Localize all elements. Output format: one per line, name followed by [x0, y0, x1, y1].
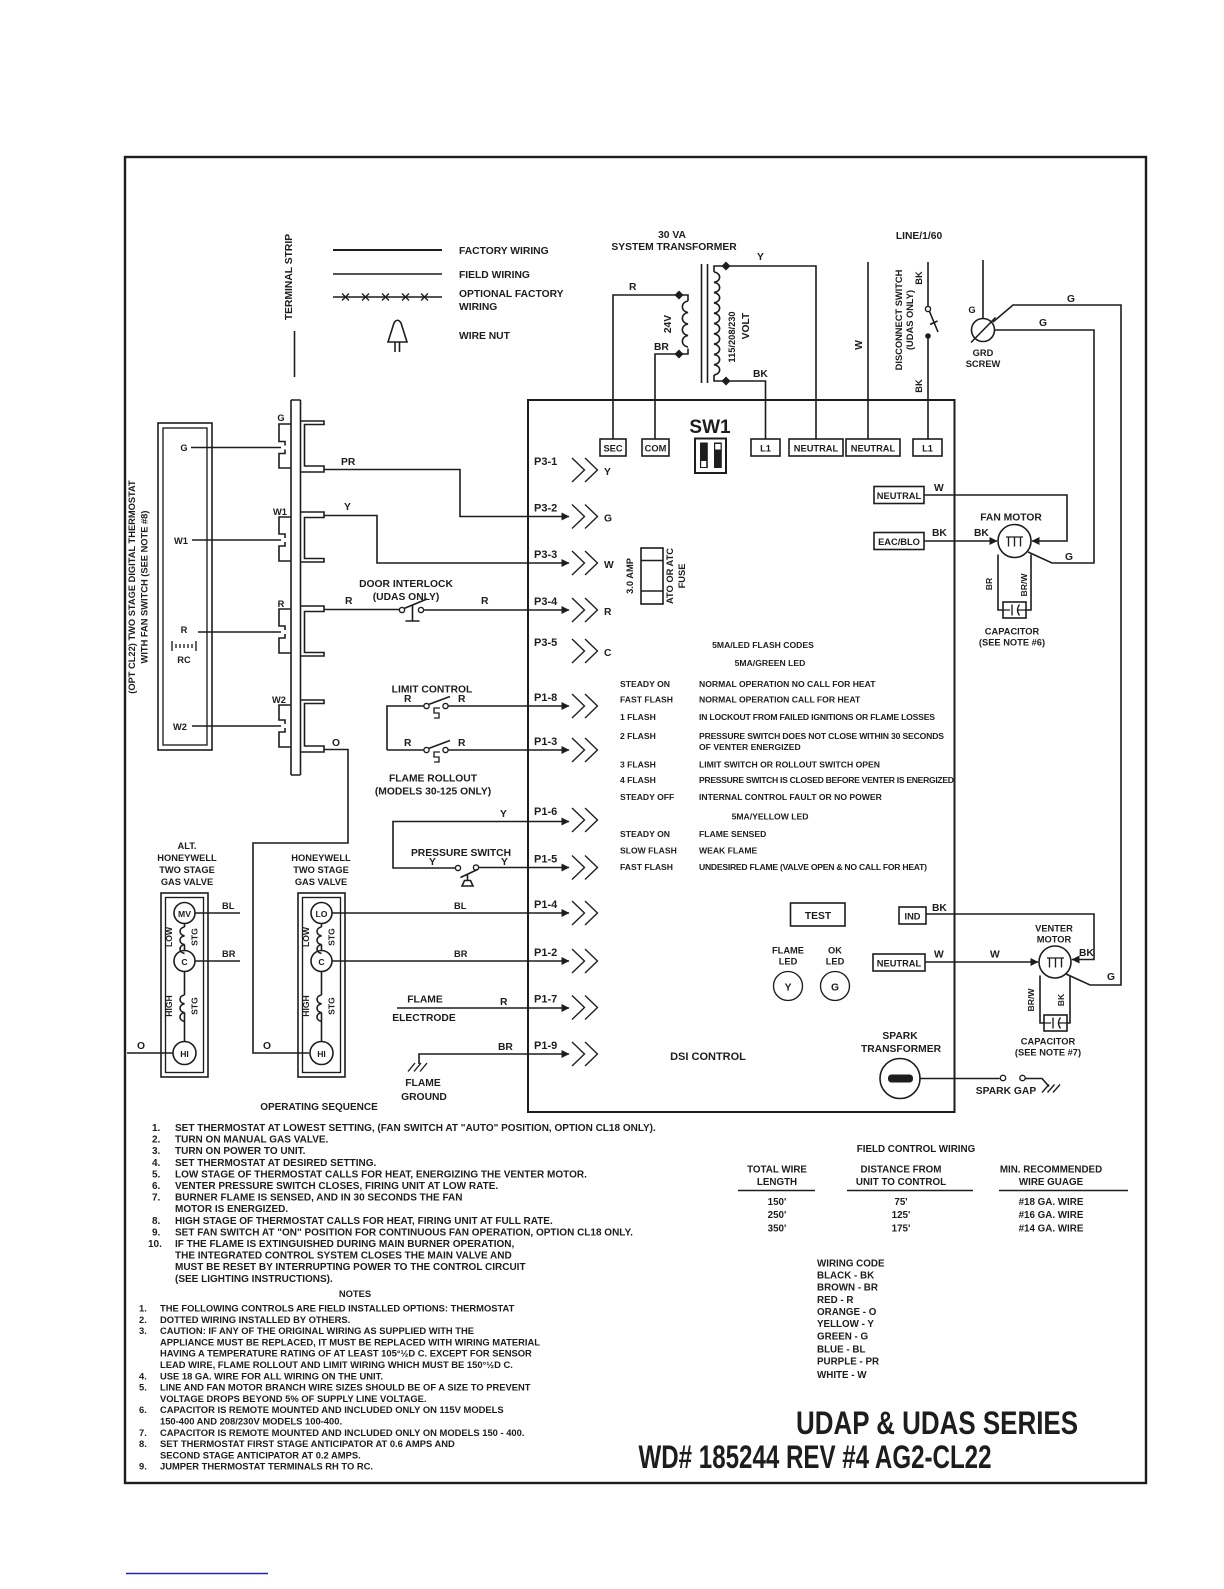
- DSI control module box: [528, 400, 955, 1112]
- svg-text:FLAME: FLAME: [772, 946, 804, 956]
- wire BL stub from MV: [195, 901, 240, 913]
- strip terminal W1 left: [273, 507, 291, 561]
- svg-text:UNIT TO CONTROL: UNIT TO CONTROL: [856, 1177, 946, 1188]
- svg-text:(UDAS ONLY): (UDAS ONLY): [905, 290, 915, 350]
- terminal NEUTRAL (from Y): [789, 439, 843, 456]
- svg-text:MUST BE RESET BY INTERRUPTING: MUST BE RESET BY INTERRUPTING POWER TO T…: [175, 1262, 526, 1273]
- svg-text:P3-1: P3-1: [534, 456, 557, 468]
- strip terminal W2 right: [301, 700, 325, 752]
- connector P1-5: [534, 854, 598, 880]
- svg-text:UDAP & UDAS SERIES: UDAP & UDAS SERIES: [796, 1405, 1078, 1441]
- svg-text:WIRING CODE: WIRING CODE: [817, 1259, 885, 1270]
- terminal NEUTRAL (from W): [846, 439, 900, 456]
- svg-text:NORMAL OPERATION NO CALL FOR H: NORMAL OPERATION NO CALL FOR HEAT: [699, 679, 876, 689]
- svg-text:BK: BK: [914, 379, 924, 393]
- disconnect switch S1 (UDAS only): [894, 262, 938, 439]
- connector P1-7: [534, 994, 598, 1020]
- svg-text:DISCONNECT SWITCH: DISCONNECT SWITCH: [894, 269, 904, 370]
- svg-text:LINE AND FAN MOTOR BRANCH WIRE: LINE AND FAN MOTOR BRANCH WIRE SIZES SHO…: [160, 1382, 531, 1393]
- alt honeywell gas valve V1: [157, 841, 217, 1077]
- svg-text:RC: RC: [177, 655, 191, 665]
- pressure switch: [393, 809, 569, 886]
- svg-text:PRESSURE SWITCH DOES NOT CLOSE: PRESSURE SWITCH DOES NOT CLOSE WITHIN 30…: [699, 731, 944, 741]
- svg-text:3.: 3.: [152, 1146, 161, 1157]
- svg-text:TOTAL WIRE: TOTAL WIRE: [747, 1165, 807, 1176]
- svg-text:5MA/YELLOW LED: 5MA/YELLOW LED: [732, 812, 809, 822]
- svg-text:FLAME: FLAME: [407, 995, 443, 1006]
- svg-text:HIGH STAGE OF THERMOSTAT CALLS: HIGH STAGE OF THERMOSTAT CALLS FOR HEAT,…: [175, 1216, 553, 1227]
- wire W neutral to venter motor: [925, 950, 1038, 963]
- svg-text:TERMINAL STRIP: TERMINAL STRIP: [284, 234, 295, 320]
- svg-text:NOTES: NOTES: [339, 1288, 371, 1299]
- DIP switch SW1: [689, 417, 731, 473]
- svg-text:FUSE: FUSE: [677, 564, 687, 589]
- svg-text:GRD: GRD: [973, 348, 994, 358]
- svg-text:115/208/230: 115/208/230: [727, 311, 737, 362]
- svg-text:BR: BR: [222, 949, 236, 959]
- svg-text:LED: LED: [826, 957, 845, 967]
- svg-text:R: R: [629, 282, 637, 293]
- svg-text:LOW: LOW: [301, 926, 311, 947]
- svg-text:MOTOR IS ENERGIZED.: MOTOR IS ENERGIZED.: [175, 1204, 288, 1215]
- field control wiring table: [738, 1144, 1128, 1235]
- svg-text:FACTORY WIRING: FACTORY WIRING: [459, 246, 549, 257]
- svg-text:STG: STG: [190, 997, 200, 1015]
- svg-text:IF THE FLAME IS EXTINGUISHED D: IF THE FLAME IS EXTINGUISHED DURING MAIN…: [175, 1239, 514, 1250]
- wire Y secondary to NEUTRAL: [726, 252, 816, 439]
- svg-text:PRESSURE SWITCH: PRESSURE SWITCH: [411, 848, 511, 859]
- svg-text:24V: 24V: [663, 315, 674, 333]
- svg-text:SYSTEM TRANSFORMER: SYSTEM TRANSFORMER: [611, 242, 737, 253]
- hyperlink underline: [126, 1573, 268, 1575]
- legend factory wiring: [333, 246, 549, 257]
- svg-text:FAN MOTOR: FAN MOTOR: [980, 513, 1042, 524]
- svg-text:P1-8: P1-8: [534, 692, 557, 704]
- LED ok (G): [821, 946, 850, 1001]
- svg-text:BROWN - BR: BROWN - BR: [817, 1283, 878, 1294]
- svg-text:FAST FLASH: FAST FLASH: [620, 862, 673, 872]
- svg-text:(SEE LIGHTING INSTRUCTIONS).: (SEE LIGHTING INSTRUCTIONS).: [175, 1274, 333, 1285]
- svg-text:G: G: [831, 983, 839, 994]
- svg-text:NEUTRAL: NEUTRAL: [794, 444, 839, 454]
- strip terminal G left: [277, 413, 291, 468]
- svg-text:ORANGE - O: ORANGE - O: [817, 1307, 877, 1318]
- svg-text:ATO OR ATC: ATO OR ATC: [665, 548, 675, 604]
- svg-text:P1-5: P1-5: [534, 854, 557, 866]
- svg-text:SEC: SEC: [603, 444, 622, 454]
- svg-text:W: W: [934, 483, 944, 494]
- svg-text:O: O: [332, 738, 340, 749]
- connector P1-8: [534, 692, 598, 718]
- svg-text:1.: 1.: [139, 1303, 147, 1314]
- svg-text:4.: 4.: [139, 1370, 147, 1381]
- svg-text:PRESSURE SWITCH IS CLOSED BEFO: PRESSURE SWITCH IS CLOSED BEFORE VENTER …: [699, 775, 954, 785]
- connector P1-3: [534, 736, 598, 762]
- svg-text:SET FAN SWITCH AT "ON" POSITIO: SET FAN SWITCH AT "ON" POSITION FOR CONT…: [175, 1227, 633, 1238]
- svg-text:TURN ON POWER TO UNIT.: TURN ON POWER TO UNIT.: [175, 1146, 306, 1157]
- svg-text:UNDESIRED FLAME (VALVE OPEN &: UNDESIRED FLAME (VALVE OPEN & NO CALL FO…: [699, 862, 927, 872]
- terminal NEUTRAL (venter): [873, 954, 925, 971]
- strip terminal W1 right: [301, 512, 325, 562]
- svg-text:BR: BR: [454, 949, 468, 959]
- connector P3-3: [534, 549, 614, 575]
- svg-text:BLUE - BL: BLUE - BL: [817, 1344, 865, 1355]
- svg-text:BK: BK: [1056, 993, 1066, 1006]
- svg-text:G: G: [1107, 972, 1115, 983]
- wire BR stub from C: [195, 949, 240, 961]
- svg-text:R: R: [404, 694, 412, 705]
- strip terminal R right: [301, 606, 325, 656]
- svg-text:TEST: TEST: [805, 911, 832, 922]
- svg-text:MIN. RECOMMENDED: MIN. RECOMMENDED: [1000, 1165, 1102, 1176]
- svg-text:TURN ON MANUAL GAS VALVE.: TURN ON MANUAL GAS VALVE.: [175, 1135, 329, 1146]
- connector P1-6: [534, 806, 598, 832]
- svg-text:BLACK - BK: BLACK - BK: [817, 1271, 874, 1282]
- terminal EAC/BLO: [874, 533, 924, 550]
- svg-text:BK: BK: [1079, 948, 1094, 959]
- svg-text:SECOND STAGE ANTICIPATOR AT 0.: SECOND STAGE ANTICIPATOR AT 0.2 AMPS.: [160, 1449, 361, 1460]
- svg-text:#14 GA. WIRE: #14 GA. WIRE: [1019, 1224, 1084, 1235]
- notes text: [139, 1288, 540, 1472]
- terminal NEUTRAL (fan): [874, 487, 924, 504]
- svg-text:5.: 5.: [152, 1169, 161, 1180]
- svg-text:R: R: [500, 997, 508, 1008]
- svg-text:P1-7: P1-7: [534, 994, 557, 1006]
- svg-text:75': 75': [894, 1197, 907, 1208]
- svg-text:R: R: [404, 738, 412, 749]
- svg-text:(MODELS 30-125 ONLY): (MODELS 30-125 ONLY): [375, 787, 491, 798]
- svg-text:SW1: SW1: [689, 417, 731, 438]
- venter motor M2: [1026, 924, 1073, 1024]
- wire G ground screw to venter motor: [993, 294, 1121, 985]
- legend optional factory wiring: [333, 289, 564, 313]
- svg-text:125': 125': [892, 1210, 911, 1221]
- svg-text:Y: Y: [429, 857, 436, 868]
- svg-text:USE 18 GA. WIRE FOR ALL WIRING: USE 18 GA. WIRE FOR ALL WIRING ON THE UN…: [160, 1370, 383, 1381]
- svg-text:Y: Y: [501, 857, 508, 868]
- wire O strip to gas valve HI: [253, 738, 348, 1053]
- svg-text:DOOR INTERLOCK: DOOR INTERLOCK: [359, 579, 453, 590]
- svg-text:G: G: [1039, 318, 1047, 329]
- svg-text:CAUTION: IF ANY OF THE ORIGIN: CAUTION: IF ANY OF THE ORIGINAL WIRING A…: [160, 1325, 474, 1336]
- svg-text:8.: 8.: [139, 1438, 147, 1449]
- svg-text:R: R: [458, 694, 466, 705]
- svg-text:INTERNAL CONTROL FAULT OR NO P: INTERNAL CONTROL FAULT OR NO POWER: [699, 792, 883, 802]
- svg-text:LIMIT SWITCH OR ROLLOUT SWITCH: LIMIT SWITCH OR ROLLOUT SWITCH OPEN: [699, 760, 880, 770]
- svg-text:BK: BK: [932, 903, 947, 914]
- svg-text:Y: Y: [604, 467, 611, 478]
- svg-text:BK: BK: [753, 369, 768, 380]
- svg-text:350': 350': [768, 1224, 787, 1235]
- wire BK secondary to L1: [726, 369, 768, 439]
- svg-text:LEAD WIRE, FLAME ROLLOUT AND L: LEAD WIRE, FLAME ROLLOUT AND LIMIT WIRIN…: [160, 1359, 513, 1370]
- terminal L1 (from disconnect): [913, 439, 942, 456]
- svg-text:IND: IND: [904, 912, 920, 922]
- svg-text:BL: BL: [454, 901, 467, 911]
- svg-text:P3-5: P3-5: [534, 637, 557, 649]
- border frame: [125, 157, 1146, 1483]
- svg-text:VENTER: VENTER: [1035, 924, 1073, 934]
- svg-text:R: R: [604, 607, 612, 618]
- svg-text:FIELD WIRING: FIELD WIRING: [459, 270, 530, 281]
- svg-text:(SEE NOTE #7): (SEE NOTE #7): [1015, 1048, 1081, 1058]
- svg-text:COM: COM: [645, 444, 667, 454]
- svg-text:HONEYWELL: HONEYWELL: [291, 853, 351, 863]
- button TEST: [791, 903, 846, 926]
- svg-text:SET THERMOSTAT FIRST STAGE ANT: SET THERMOSTAT FIRST STAGE ANTICIPATOR A…: [160, 1438, 455, 1449]
- svg-text:RED - R: RED - R: [817, 1295, 853, 1306]
- svg-text:W2: W2: [272, 695, 286, 705]
- strip terminal G right: [301, 421, 325, 472]
- svg-text:9.: 9.: [139, 1461, 147, 1472]
- svg-text:G: G: [968, 305, 975, 315]
- svg-text:FAST FLASH: FAST FLASH: [620, 695, 673, 705]
- svg-text:LINE/1/60: LINE/1/60: [896, 231, 943, 242]
- svg-text:HI: HI: [180, 1049, 189, 1059]
- wire BK IND to venter motor: [926, 903, 1094, 960]
- svg-text:10.: 10.: [148, 1239, 162, 1250]
- svg-text:P3-3: P3-3: [534, 549, 557, 561]
- svg-text:(OPT CL22) TWO STAGE DIGITAL T: (OPT CL22) TWO STAGE DIGITAL THERMOSTAT: [127, 480, 137, 694]
- svg-text:3.0 AMP: 3.0 AMP: [625, 558, 635, 594]
- svg-text:O: O: [137, 1041, 145, 1052]
- svg-text:TWO STAGE: TWO STAGE: [293, 865, 349, 875]
- svg-text:3 FLASH: 3 FLASH: [620, 760, 656, 770]
- svg-text:Y: Y: [500, 809, 507, 820]
- svg-text:9.: 9.: [152, 1227, 161, 1238]
- svg-text:WD# 185244 REV #4 AG2-CL22: WD# 185244 REV #4 AG2-CL22: [639, 1439, 992, 1475]
- wire R transformer to SEC: [613, 282, 679, 439]
- svg-text:LENGTH: LENGTH: [757, 1177, 797, 1188]
- svg-text:5.: 5.: [139, 1382, 147, 1393]
- svg-text:250': 250': [768, 1210, 787, 1221]
- svg-text:#16 GA. WIRE: #16 GA. WIRE: [1019, 1210, 1084, 1221]
- svg-text:G: G: [1067, 294, 1075, 305]
- svg-text:P1-4: P1-4: [534, 899, 558, 911]
- svg-text:BR: BR: [498, 1042, 513, 1053]
- svg-text:BR/W: BR/W: [1026, 988, 1036, 1012]
- svg-text:DOTTED WIRING INSTALLED BY OTH: DOTTED WIRING INSTALLED BY OTHERS.: [160, 1314, 350, 1325]
- terminal L1: [751, 439, 780, 456]
- svg-text:LO: LO: [316, 909, 328, 919]
- svg-text:DSI CONTROL: DSI CONTROL: [670, 1051, 746, 1063]
- svg-text:SET THERMOSTAT AT LOWEST SETTI: SET THERMOSTAT AT LOWEST SETTING, (FAN S…: [175, 1123, 656, 1134]
- svg-text:W2: W2: [173, 722, 187, 732]
- svg-text:BK: BK: [932, 528, 947, 539]
- svg-text:R: R: [458, 738, 466, 749]
- svg-text:JUMPER THERMOSTAT TERMINALS RH: JUMPER THERMOSTAT TERMINALS RH TO RC.: [160, 1461, 373, 1472]
- svg-text:CAPACITOR IS REMOTE MOUNTED AN: CAPACITOR IS REMOTE MOUNTED AND INCLUDED…: [160, 1404, 504, 1415]
- svg-text:DISTANCE FROM: DISTANCE FROM: [861, 1165, 942, 1176]
- svg-text:8.: 8.: [152, 1216, 161, 1227]
- svg-text:THE INTEGRATED CONTROL SYSTEM: THE INTEGRATED CONTROL SYSTEM CLOSES THE…: [175, 1251, 512, 1262]
- svg-text:IN LOCKOUT FROM FAILED IGNITIO: IN LOCKOUT FROM FAILED IGNITIONS OR FLAM…: [699, 712, 935, 722]
- svg-text:R: R: [278, 599, 285, 609]
- svg-text:OK: OK: [828, 946, 842, 956]
- thermostat R/RC jumper + wire: [172, 625, 281, 665]
- svg-text:SPARK: SPARK: [882, 1031, 918, 1042]
- svg-text:BL: BL: [222, 901, 235, 911]
- svg-text:HIGH: HIGH: [164, 995, 174, 1016]
- svg-text:BR/W: BR/W: [1019, 573, 1029, 597]
- svg-text:R: R: [481, 596, 489, 607]
- svg-text:P1-3: P1-3: [534, 736, 557, 748]
- flame ground: [401, 1042, 569, 1103]
- svg-text:WIRING: WIRING: [459, 302, 497, 313]
- svg-text:ELECTRODE: ELECTRODE: [392, 1013, 456, 1024]
- flame rollout switch: [375, 738, 569, 798]
- svg-text:Y: Y: [785, 983, 792, 994]
- svg-text:CAPACITOR: CAPACITOR: [985, 627, 1040, 637]
- svg-text:#18 GA. WIRE: #18 GA. WIRE: [1019, 1197, 1084, 1208]
- svg-text:WIRE GUAGE: WIRE GUAGE: [1019, 1177, 1084, 1188]
- svg-text:7.: 7.: [152, 1193, 161, 1204]
- svg-text:HAVING A TEMPERATURE RATING OF: HAVING A TEMPERATURE RATING OF AT LEAST …: [160, 1348, 532, 1359]
- svg-text:150-400 AND 208/230V MODELS 10: 150-400 AND 208/230V MODELS 100-400.: [160, 1416, 342, 1427]
- svg-text:1.: 1.: [152, 1123, 161, 1134]
- LED flame (Y): [772, 946, 804, 1001]
- svg-text:5MA/LED FLASH CODES: 5MA/LED FLASH CODES: [712, 640, 814, 650]
- svg-text:BR: BR: [654, 342, 669, 353]
- svg-text:O: O: [263, 1041, 271, 1052]
- svg-text:R: R: [345, 596, 353, 607]
- legend wire nut: [388, 320, 511, 352]
- spark gap: [920, 1075, 1060, 1097]
- svg-text:W1: W1: [273, 507, 287, 517]
- svg-text:VOLTAGE DROPS BEYOND 5% OF SUP: VOLTAGE DROPS BEYOND 5% OF SUPPLY LINE V…: [160, 1393, 427, 1404]
- svg-text:L1: L1: [922, 444, 933, 454]
- svg-text:NEUTRAL: NEUTRAL: [877, 959, 922, 969]
- svg-text:SET THERMOSTAT AT DESIRED SETT: SET THERMOSTAT AT DESIRED SETTING.: [175, 1158, 377, 1169]
- secondary winding 115/208/230: [714, 266, 726, 272]
- svg-text:P1-6: P1-6: [534, 806, 557, 818]
- door interlock switch: [359, 579, 569, 621]
- svg-text:W: W: [854, 340, 865, 350]
- svg-text:2 FLASH: 2 FLASH: [620, 731, 656, 741]
- transformer T1 30VA: [611, 230, 752, 386]
- svg-text:EAC/BLO: EAC/BLO: [878, 537, 920, 547]
- svg-text:OPTIONAL FACTORY: OPTIONAL FACTORY: [459, 289, 564, 300]
- svg-text:NORMAL OPERATION CALL FOR HEAT: NORMAL OPERATION CALL FOR HEAT: [699, 695, 861, 705]
- wire BL LO to P1-4: [332, 901, 569, 913]
- svg-text:BK: BK: [914, 271, 924, 285]
- capacitor C1 (fan, see note 6): [979, 602, 1045, 648]
- svg-text:2.: 2.: [139, 1314, 147, 1325]
- svg-text:FLAME ROLLOUT: FLAME ROLLOUT: [389, 774, 478, 785]
- svg-text:STEADY ON: STEADY ON: [620, 829, 670, 839]
- svg-text:BK: BK: [974, 528, 989, 539]
- svg-text:P3-4: P3-4: [534, 596, 558, 608]
- svg-text:THE FOLLOWING CONTROLS ARE FIE: THE FOLLOWING CONTROLS ARE FIELD INSTALL…: [160, 1303, 515, 1314]
- svg-text:GAS VALVE: GAS VALVE: [295, 877, 347, 887]
- connector P1-2: [534, 947, 598, 973]
- svg-text:30 VA: 30 VA: [658, 230, 686, 241]
- svg-text:L1: L1: [760, 444, 771, 454]
- fuse F1 3.0 AMP ATO/ATC: [625, 548, 687, 604]
- flash code legend text: [620, 640, 954, 872]
- operating sequence text: [148, 1102, 656, 1285]
- svg-text:CAPACITOR: CAPACITOR: [1021, 1037, 1076, 1047]
- svg-text:LED: LED: [779, 957, 798, 967]
- svg-text:W: W: [604, 560, 614, 571]
- svg-text:G: G: [277, 413, 284, 423]
- wire W neutral to fan motor: [924, 483, 1067, 541]
- svg-text:YELLOW - Y: YELLOW - Y: [817, 1319, 874, 1330]
- svg-text:NEUTRAL: NEUTRAL: [877, 491, 922, 501]
- svg-text:MV: MV: [178, 909, 191, 919]
- svg-text:STEADY ON: STEADY ON: [620, 679, 670, 689]
- svg-text:C: C: [604, 648, 612, 659]
- svg-text:WITH FAN SWITCH (SEE NOTE #8): WITH FAN SWITCH (SEE NOTE #8): [140, 511, 150, 664]
- fan motor M1: [980, 513, 1042, 611]
- terminal strip bar: [291, 400, 301, 775]
- svg-text:SCREW: SCREW: [966, 359, 1001, 369]
- svg-text:GROUND: GROUND: [401, 1092, 447, 1103]
- svg-text:3.: 3.: [139, 1325, 147, 1336]
- svg-text:WHITE - W: WHITE - W: [817, 1370, 867, 1381]
- svg-text:C: C: [181, 957, 187, 967]
- svg-text:150': 150': [768, 1197, 787, 1208]
- svg-text:4.: 4.: [152, 1158, 161, 1169]
- svg-text:W: W: [990, 950, 1000, 961]
- terminal IND: [899, 907, 926, 924]
- connector P1-4: [534, 899, 598, 925]
- svg-text:PURPLE - PR: PURPLE - PR: [817, 1357, 879, 1368]
- svg-text:FIELD CONTROL WIRING: FIELD CONTROL WIRING: [857, 1144, 976, 1155]
- svg-text:C: C: [318, 957, 324, 967]
- strip terminal R left: [278, 599, 291, 653]
- terminal strip label: [284, 234, 295, 377]
- connector P3-4: [534, 596, 612, 622]
- svg-text:P3-2: P3-2: [534, 503, 557, 515]
- flame electrode: [392, 995, 569, 1025]
- svg-text:GREEN - G: GREEN - G: [817, 1331, 869, 1342]
- svg-text:7.: 7.: [139, 1427, 147, 1438]
- svg-text:STEADY OFF: STEADY OFF: [620, 792, 674, 802]
- svg-text:W: W: [934, 950, 944, 961]
- svg-text:GAS VALVE: GAS VALVE: [161, 877, 213, 887]
- svg-text:APPLIANCE MUST BE REPLACED, IT: APPLIANCE MUST BE REPLACED, IT MUST BE R…: [160, 1336, 540, 1347]
- connector P3-5: [534, 637, 612, 663]
- svg-text:G: G: [604, 514, 612, 525]
- svg-text:ALT.: ALT.: [178, 841, 197, 851]
- svg-text:HONEYWELL: HONEYWELL: [157, 853, 217, 863]
- svg-text:(UDAS ONLY): (UDAS ONLY): [373, 592, 440, 603]
- svg-text:VENTER PRESSURE SWITCH CLOSES,: VENTER PRESSURE SWITCH CLOSES, FIRING UN…: [175, 1181, 498, 1192]
- wire BR transformer to COM: [654, 342, 679, 439]
- core: [701, 264, 703, 383]
- capacitor C2 (venter, see note 7): [1015, 1015, 1081, 1058]
- title block: [639, 1405, 1079, 1475]
- svg-text:(SEE NOTE #6): (SEE NOTE #6): [979, 638, 1045, 648]
- wire O stub to HI: [127, 1041, 173, 1053]
- svg-text:SPARK GAP: SPARK GAP: [976, 1086, 1037, 1097]
- svg-text:P1-9: P1-9: [534, 1040, 557, 1052]
- svg-text:VOLT: VOLT: [741, 312, 752, 339]
- svg-text:STG: STG: [190, 928, 200, 946]
- svg-text:6.: 6.: [139, 1404, 147, 1415]
- wire W line to NEUTRAL: [854, 262, 868, 439]
- svg-text:HI: HI: [317, 1049, 326, 1059]
- svg-text:2.: 2.: [152, 1135, 161, 1146]
- limit control switch: [387, 685, 569, 751]
- svg-text:OF VENTER ENERGIZED: OF VENTER ENERGIZED: [699, 742, 801, 752]
- wire R strip to door interlock: [324, 596, 400, 610]
- svg-text:STG: STG: [327, 928, 337, 946]
- terminal COM: [642, 439, 669, 456]
- svg-text:FLAME: FLAME: [405, 1078, 441, 1089]
- spark transformer T2: [861, 1031, 942, 1099]
